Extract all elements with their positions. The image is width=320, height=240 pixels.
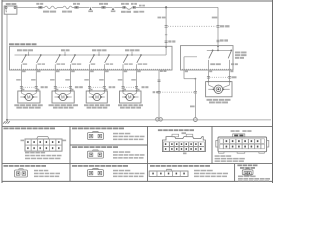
joint connector 2 [111,7,116,12]
connector boundary at motor 4 [122,86,149,90]
node: junction at feed split [165,6,167,8]
wire [105,6,112,8]
lumbar switch ground branch [184,57,197,70]
switch contact 4 [71,54,82,70]
switch contact 7 [123,54,133,70]
wire: lumbar ground to bus [184,70,196,118]
label: front tilt motor name [14,104,42,108]
svg-text:M: M [61,95,65,100]
connector boundary A-06 [158,91,197,93]
connector B-01 [36,3,43,9]
joint tick [165,34,167,36]
wire: breaker to ground bus [6,14,8,120]
wire pair to motor 1 [16,70,40,91]
connector view B-52 lumbar support switch [149,165,228,177]
circuit breaker CB [4,3,17,14]
label: group RECLINE [125,49,140,56]
wire pair to motor 2 [50,70,75,91]
motor M3: rear tilt motor [86,90,107,103]
wire loop dip [126,7,132,9]
label: recline motor name [118,104,143,108]
svg-text:M: M [95,95,99,100]
switch contact 8 [137,54,148,70]
connector dotted boundary [168,25,217,27]
wire: feed drop to lumbar support switch [212,7,218,45]
connector view A-05 recline motor [72,165,145,177]
connector marker B-51 entry [165,40,176,42]
label: lumbar support motor name [207,99,231,104]
connector view A-02 front tilt motor [72,128,145,141]
page border frame [2,0,273,183]
connector view A-04 seat harness [158,129,206,154]
connector marker C-06 on feed drop [165,26,168,28]
wire pair to lumbar motor [208,70,233,82]
wire [114,6,123,8]
connector C-04 [121,3,129,9]
svg-text:M: M [27,95,31,100]
label: group FRONT UP/DOWN [17,49,33,56]
wire: battery feed B+ [17,6,40,8]
switch contact 6 [104,54,113,70]
motor M4: recline motor [120,90,142,103]
motor M5: lumbar support motor [206,81,232,97]
connector marker on lumbar drop [217,25,230,27]
ground bus wire [7,119,271,121]
connector view B-02 body harness [215,130,269,162]
connector view A-03 slide motor [72,146,145,158]
connector boundary at lumbar motor [207,76,237,78]
switch contact 3 [55,54,65,70]
connector boundary at motor 3 [88,86,115,90]
node: internal feed bus [15,47,167,55]
lumbar switch contact down [228,50,238,71]
lumbar switch contact up [208,50,220,71]
label: group REAR UP/DOWN [92,49,107,56]
motor M2: slide motor [52,90,74,103]
joint connector 1 [88,7,93,12]
ground: screw terminal on bus [194,118,198,122]
switch contact 1 [21,54,27,70]
wire: feed drop to power seat switch [158,7,167,46]
connector view E-03 lumbar motor [237,165,270,182]
connector marker E-02 [217,39,229,41]
connector table frame [2,126,273,181]
label: slide motor name [49,104,79,108]
terminal at switch entry [165,46,167,48]
wire segment with coil symbol 2 [62,6,72,13]
wire [78,6,89,8]
connector boundary at motor 1 [20,86,48,90]
connector view B-51 power seat switch [4,128,67,160]
wire [92,6,102,8]
joint: double grommet on ground bus [156,118,163,121]
connector C-02 [72,3,80,9]
wire pair to motor 4 [118,70,141,91]
wire pair to motor 3 [84,70,108,91]
power seat switch B-51 [9,43,172,70]
label: rear tilt motor name [84,104,110,108]
connector boundary at motor 2 [54,86,83,90]
lumbar support switch [181,46,247,70]
switch contact 5 [90,54,96,70]
ground: chassis ground at left [3,119,10,124]
svg-text:M: M [128,95,132,100]
wire: switch ground return [153,70,167,119]
wire [57,6,63,8]
connector C-03 [99,3,108,9]
switch contact 2 [36,54,45,70]
wire segment with coil symbol [42,6,58,13]
connector C-05 [121,3,139,13]
label: group SLIDE [61,49,70,56]
motor M1: front tilt motor [18,90,40,103]
lumbar switch internal bus [207,46,232,51]
connector view A-07 rear tilt motor [4,165,61,177]
fuse rating label [136,5,146,13]
terminal at lumbar switch entry [217,45,219,47]
wire [145,6,218,8]
